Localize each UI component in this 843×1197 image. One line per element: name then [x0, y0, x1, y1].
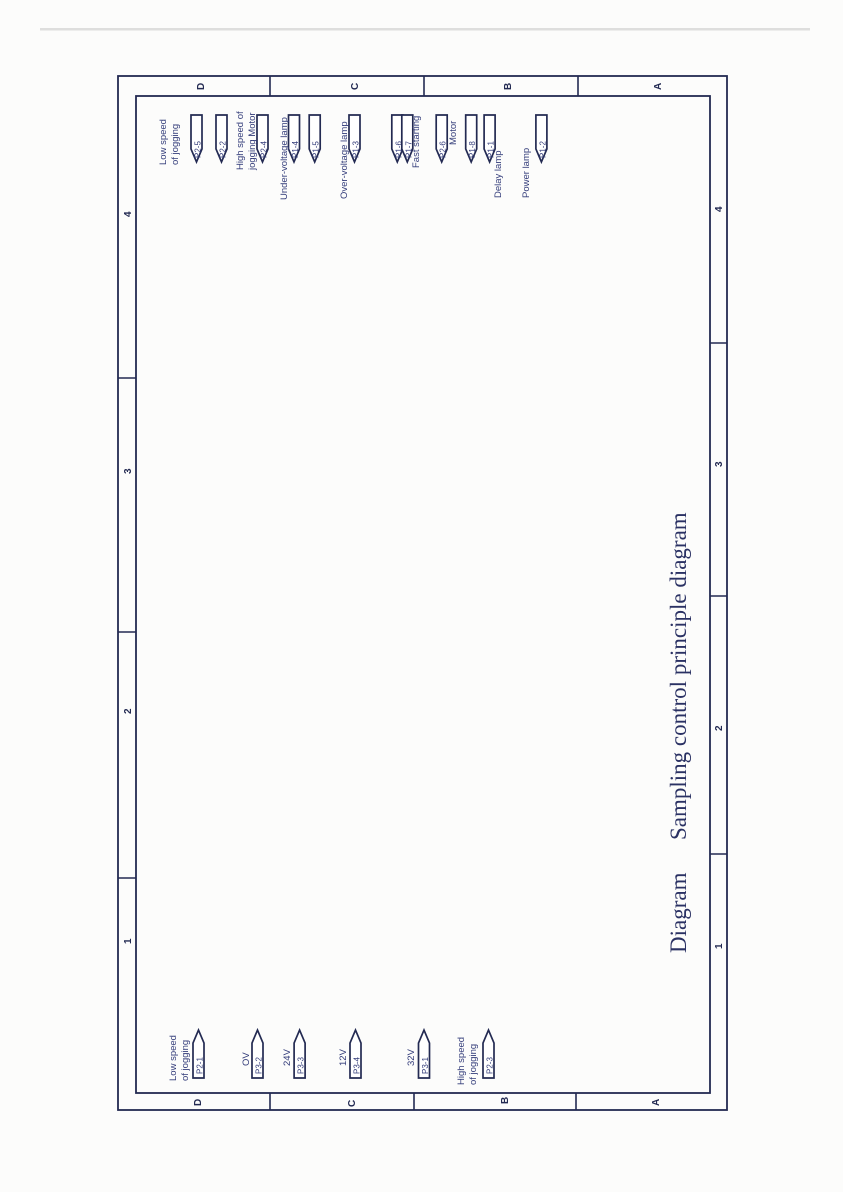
svg-text:Sampling control principle dia: Sampling control principle diagram: [666, 512, 691, 840]
svg-text:Over-voltage lamp: Over-voltage lamp: [339, 121, 350, 199]
connector P2-1: [193, 1030, 204, 1078]
svg-text:32V: 32V: [406, 1048, 417, 1066]
connector P3-3: [294, 1030, 305, 1078]
svg-text:P2-5: P2-5: [194, 141, 203, 158]
svg-text:P2-3: P2-3: [486, 1057, 495, 1074]
connector P2-6: [436, 115, 447, 162]
svg-text:3: 3: [714, 461, 725, 467]
svg-text:High speed of: High speed of: [235, 111, 246, 170]
connector P1-5: [309, 115, 320, 162]
svg-text:Under-voltage lamp: Under-voltage lamp: [279, 117, 290, 200]
svg-text:2: 2: [123, 708, 134, 714]
svg-text:of jogging: of jogging: [170, 124, 181, 165]
svg-text:P1-2: P1-2: [538, 141, 547, 158]
svg-text:P2-4: P2-4: [260, 141, 269, 158]
connector P1-7: [402, 115, 413, 162]
zone ticks left edge: [118, 377, 136, 379]
connector P1-2: [536, 115, 547, 162]
svg-text:B: B: [500, 1097, 511, 1104]
svg-text:A: A: [653, 83, 664, 90]
svg-text:P1-8: P1-8: [468, 141, 477, 158]
connector P2-4: [257, 115, 268, 162]
svg-text:1: 1: [123, 938, 134, 944]
zone ticks right edge: [710, 342, 727, 344]
svg-text:P3-4: P3-4: [353, 1057, 362, 1074]
svg-text:C: C: [350, 83, 361, 90]
zone ticks bottom edge: [269, 1093, 271, 1110]
connector P2-3: [483, 1030, 494, 1078]
svg-text:1: 1: [714, 943, 725, 949]
svg-text:P3-3: P3-3: [297, 1057, 306, 1074]
inner border frame: [136, 96, 710, 1093]
svg-text:12V: 12V: [338, 1048, 349, 1066]
connector P1-6: [392, 115, 403, 162]
connector P1-1: [484, 115, 495, 162]
svg-text:C: C: [347, 1100, 358, 1107]
svg-text:P1-4: P1-4: [291, 141, 300, 158]
svg-text:D: D: [196, 83, 207, 90]
svg-text:D: D: [193, 1099, 204, 1106]
svg-text:P2-2: P2-2: [219, 141, 228, 158]
svg-text:P2-6: P2-6: [439, 141, 448, 158]
svg-text:Diagram: Diagram: [666, 872, 691, 953]
connector P1-4: [289, 115, 300, 162]
svg-text:OV: OV: [241, 1052, 252, 1066]
svg-text:Low speed: Low speed: [168, 1035, 179, 1081]
svg-text:P3-2: P3-2: [255, 1057, 264, 1074]
connector P1-3: [349, 115, 360, 162]
svg-text:B: B: [503, 83, 514, 90]
scan artifact streak: [40, 28, 810, 31]
svg-text:P1-3: P1-3: [352, 141, 361, 158]
svg-text:of jogging: of jogging: [180, 1040, 191, 1081]
svg-text:Low speed: Low speed: [158, 119, 169, 165]
connector P3-1: [419, 1030, 430, 1078]
connector P2-5: [191, 115, 202, 162]
svg-text:24V: 24V: [282, 1048, 293, 1066]
svg-text:2: 2: [714, 725, 725, 731]
svg-text:4: 4: [123, 211, 134, 217]
svg-text:A: A: [651, 1099, 662, 1106]
svg-text:P1-5: P1-5: [312, 141, 321, 158]
outer border frame: [118, 76, 727, 1110]
svg-text:4: 4: [714, 206, 725, 212]
svg-text:Delay lamp: Delay lamp: [493, 150, 504, 198]
connector P2-2: [216, 115, 227, 162]
connector P3-4: [350, 1030, 361, 1078]
svg-text:Power lamp: Power lamp: [521, 148, 532, 198]
svg-text:P3-1: P3-1: [421, 1057, 430, 1074]
svg-text:High speed: High speed: [456, 1037, 467, 1085]
svg-text:jogging Motor: jogging Motor: [247, 112, 258, 171]
svg-text:Fast starting: Fast starting: [411, 116, 422, 168]
svg-text:of jogging: of jogging: [468, 1044, 479, 1085]
svg-text:P2-1: P2-1: [196, 1057, 205, 1074]
connector P3-2: [252, 1030, 263, 1078]
connector P1-8: [466, 115, 477, 162]
zone ticks top edge: [269, 76, 271, 96]
svg-text:Motor: Motor: [448, 121, 459, 145]
svg-text:3: 3: [123, 468, 134, 474]
